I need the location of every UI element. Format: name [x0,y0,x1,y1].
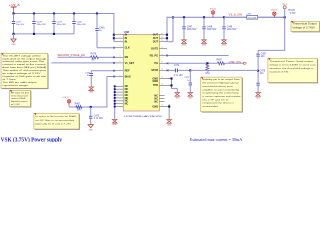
svg-text:1: 1 [120,33,121,35]
svg-text:transconductance) error: transconductance) error [202,85,233,88]
node TPD pin [170,84,172,86]
svg-text:of 7.5ms.: of 7.5ms. [2,79,17,81]
svg-text:the internal OTA (operational: the internal OTA (operational [202,82,239,85]
ground C472 [188,93,193,100]
svg-text:100n 50V: 100n 50V [207,29,217,31]
IC left pin stubs [114,33,123,77]
svg-text:C480: C480 [77,21,83,23]
svg-text:R497: R497 [217,60,223,62]
capacitor C482 10n (REF) [85,71,93,87]
ground input rail [11,34,16,46]
svg-text:13: 13 [161,105,163,107]
node TP junction [284,16,286,18]
power flag output bus [210,7,216,17]
ground C449 [222,40,227,47]
svg-text:100n 50V: 100n 50V [37,24,47,26]
svg-text:20: 20 [161,54,163,56]
wire bus1 to IN pins [113,13,115,42]
svg-text:2: 2 [120,37,121,39]
svg-text:NC: NC [154,99,158,103]
svg-text:IN: IN [125,33,128,37]
note: stability pin [201,77,243,113]
svg-text:PG: PG [154,61,158,65]
svg-text:it: series capacitor and resis: it: series capacitor and resistor [202,95,241,98]
svg-text:FB_PG: FB_PG [150,53,159,57]
svg-text:100n 50V: 100n 50V [77,24,87,26]
svg-text:recommended.: recommended. [202,106,219,108]
node bbus-gnd [12,33,14,35]
wire bottom-right gnd column [167,104,169,119]
resistor R487 10R (BIAS) [75,103,82,111]
svg-text:GND: GND [113,124,118,126]
svg-text:C472: C472 [184,77,190,79]
wire output S-bend [258,17,285,53]
svg-text:Theoretical Output: Theoretical Output [292,23,317,26]
svg-text:0R: 0R [92,60,95,62]
node bus2-sense [172,16,174,18]
svg-text:REF: REF [125,69,131,73]
node BIAS-C473 [90,106,92,108]
svg-text:Power: Power [271,9,277,12]
node bottom-right gnd [168,105,170,107]
node bus1-C478 [33,12,35,14]
svg-text:The BW pin adds output: The BW pin adds output [2,81,37,84]
svg-text:R478: R478 [91,54,97,56]
capacitor C479 100n 50V [52,14,66,34]
node PG-DNI [206,62,208,64]
node OUT1 [166,34,168,36]
svg-text:REF outputs 1.2V. A 12k: REF outputs 1.2V. A 12k [11,91,29,94]
svg-text:C478: C478 [37,21,43,23]
svg-text:IN: IN [125,40,128,44]
svg-text:C449: C449 [227,26,233,28]
wire BIAS RC rail [69,106,107,108]
svg-text:6: 6 [120,61,121,63]
node STAB-output [257,70,259,72]
node STAB-C472 [189,69,191,71]
wire EN segment a [58,56,91,58]
svg-text:Power: Power [210,7,216,10]
resistor R478 0R (EN) [91,54,99,62]
junction x CLK pin [113,47,115,49]
svg-text:C448: C448 [207,26,213,28]
svg-text:The V3_8ET voltage will be: The V3_8ET voltage will be [2,54,42,57]
svg-text:compensate the device is: compensate the device is [202,102,234,105]
svg-text:TP470: TP470 [288,10,295,12]
capacitor C481 1u (CLK soft-start) [95,14,105,48]
IC U48 right pin labels [150,33,159,109]
wire OUT sense vertical [167,17,173,42]
wire PG segment b [225,62,244,64]
svg-text:21: 21 [161,47,163,49]
capacitor C447 100n 50V [182,17,197,40]
svg-text:C447: C447 [187,26,193,28]
svg-text:DNI: DNI [206,73,210,75]
note: REF current source [10,90,32,107]
power flag BIAS [62,97,71,107]
svg-text:5: 5 [120,56,121,58]
svg-text:3.75V: 3.75V [290,13,296,15]
svg-text:draw from then REF pin (100uA): draw from then REF pin (100uA) [2,66,46,69]
svg-text:24: 24 [161,33,163,35]
svg-text:GND: GND [152,79,158,83]
power flag after bead [271,9,277,18]
svg-text:Stability pin is an output fro: Stability pin is an output from [202,78,240,81]
svg-text:GND: GND [175,97,180,99]
svg-text:set the internal current: set the internal current [11,94,29,97]
wire FB_PG [166,55,228,57]
svg-text:GND: GND [202,45,207,47]
svg-text:LP38798SD-ADJ/NOPB: LP38798SD-ADJ/NOPB [124,115,163,118]
svg-text:NC: NC [125,102,129,106]
capacitor C477 10u 10V [12,14,25,34]
wire GND/TPD chain [167,79,177,93]
wire input bottom bus [14,33,75,35]
resistor DNI pulldown [206,64,210,75]
test point TP470 [282,4,296,17]
offpage connector V3E_PG [244,62,247,64]
node bus2-C447 [183,16,185,18]
svg-text:Theoretical Power Good output: Theoretical Power Good output [269,60,313,63]
svg-text:C481: C481 [99,27,105,29]
ground NC bus [112,119,117,126]
node OUT2 [166,37,168,39]
svg-text:17: 17 [161,77,163,79]
capacitor C478 100n 50V [32,14,46,34]
title VSK power supply [1,137,63,144]
svg-text:capacitance margin.: capacitance margin. [2,84,29,87]
ferrite bead L470 [224,13,285,19]
wire V1_SET [51,62,115,64]
svg-text:23: 23 [161,37,163,39]
ground REF cap [89,87,94,94]
IC right NC pin stubs [159,96,164,102]
node bus1-C481 [96,12,98,14]
wire BIAS horizontal [107,76,115,78]
svg-text:18: 18 [161,69,163,71]
svg-text:19: 19 [161,62,163,64]
svg-text:8: 8 [120,75,121,77]
svg-text:100n 50V: 100n 50V [57,24,67,26]
node IN1 [113,34,115,36]
net label SECOND_STAGE_EN [57,54,85,57]
svg-text:4: 4 [120,46,121,48]
wire EN segment b [99,56,115,58]
capacitor C471 4.7u 10V (STAB series) [174,65,191,77]
net label V3_8_SW [229,14,243,17]
svg-text:Replicated current on: Replicated current on [11,100,28,103]
text estimated max current [190,138,243,142]
svg-text:an RC filter is recommended: an RC filter is recommended [35,119,74,122]
svg-text:amplifier to aid in monitoring: amplifier to aid in monitoring [202,88,239,91]
node bus1-C479 [53,12,55,14]
power symbol +V3_8 (input rail) [9,3,20,13]
note: BIAS RC filter [34,113,80,130]
wire NC bus left [114,85,116,119]
wire STAB segment a [167,70,175,72]
svg-text:OUT: OUT [153,40,159,44]
svg-text:GND: GND [188,97,193,99]
svg-text:C475: C475 [260,70,266,72]
svg-text:600R: 600R [248,17,257,19]
note: output voltage replication [1,53,49,89]
IC right pin stubs [159,33,167,107]
svg-text:In order to limit noise on BIA: In order to limit noise on BIAS, [35,115,77,118]
svg-text:(typically 10 R and 4.7 uF).: (typically 10 R and 4.7 uF). [35,122,72,125]
node bus1-start [12,12,14,14]
node bus1-C480 [73,12,75,14]
svg-text:10u 10V: 10u 10V [16,24,25,26]
wire STAB segment b [190,69,258,71]
node bus2-C448 [203,16,205,18]
svg-text:+V3_8: +V3_8 [62,97,69,99]
wire input top bus [13,13,114,15]
svg-text:Capacitor of 10nF gives a soft: Capacitor of 10nF gives a soft start [2,75,46,78]
svg-text:GND: GND [152,104,158,108]
node GND pin [170,77,172,79]
svg-text:GND: GND [167,124,172,126]
svg-text:or optimizing the control loop: or optimizing the control loop [202,92,240,95]
svg-text:SECOND_STAGE_EN: SECOND_STAGE_EN [57,54,85,57]
svg-text:C471: C471 [174,65,180,67]
capacitor C475 10n [256,70,266,92]
svg-text:VSK (3.75V) Power supply: VSK (3.75V) Power supply [1,137,63,142]
wire BIAS vertical [106,77,108,108]
capacitor C448 100n 50V [202,17,217,40]
svg-text:TPD: TPD [153,83,158,87]
svg-text:C497: C497 [261,53,267,55]
svg-text:C479: C479 [57,21,63,23]
svg-text:OUTS: OUTS [151,46,158,50]
ground bottom-right [167,120,172,127]
svg-text:L470: L470 [247,13,251,15]
node bus2-C449 [223,16,225,18]
ground GND/TPD chain [175,93,180,100]
capacitor C449 100n 50V [222,17,237,40]
capacitor C497 10n [256,53,267,71]
IC U48 body [123,30,159,111]
svg-text:4.7u 10V: 4.7u 10V [174,75,184,77]
svg-text:3: 3 [120,40,121,42]
note: power good threshold [268,58,318,83]
svg-text:V3_8_SW: V3_8_SW [229,14,243,17]
note: theoretical output voltage [291,21,320,32]
svg-text:situation, the threshold volta: situation, the threshold voltage is [269,67,313,70]
svg-text:C473: C473 [94,115,100,117]
svg-text:STAB: STAB [151,68,158,72]
svg-text:an output voltage of 3.74V.: an output voltage of 3.74V. [2,72,41,75]
svg-text:current is equal to the curren: current is equal to the current [2,63,46,66]
svg-text:replicated on the output throu: replicated on the output through [2,57,46,60]
svg-text:OUT: OUT [153,33,159,37]
node bbus-C479 [53,33,55,35]
capacitor C472 1u [184,70,192,92]
svg-text:C482: C482 [85,72,91,74]
svg-text:external unity gain error. The: external unity gain error. The [2,60,45,63]
svg-text:voltage is set to 3.308V. In w: voltage is set to 3.308V. In worst case [269,63,317,66]
svg-text:7: 7 [120,69,121,71]
svg-text:Then outline 47 shift resistor: Then outline 47 shift resistor gives [2,69,46,72]
wire CLK [97,30,114,48]
capacitor C473 4.7u 10V (BIAS) [89,107,103,125]
svg-text:4.7u 10V: 4.7u 10V [94,118,104,120]
ground C447 [182,40,187,47]
svg-text:IN: IN [125,36,128,40]
svg-text:OUT: OUT [153,36,159,40]
ground BIAS cap [88,125,93,132]
svg-text:BIAS: BIAS [125,74,131,78]
svg-text:CLK: CLK [125,46,130,50]
wire output top bus [167,16,285,18]
ground C448 [202,40,207,47]
svg-text:R487: R487 [75,103,81,105]
svg-text:GND: GND [11,44,16,46]
IC U48 part number [124,115,163,118]
svg-text:GND: GND [89,92,94,94]
ground C475 [256,93,261,100]
capacitor C480 100n 50V [72,14,86,34]
svg-text:GND: GND [89,129,94,131]
svg-text:source to 100uA.: source to 100uA. [11,97,26,100]
svg-text:GND: GND [222,45,227,47]
svg-text:maximum 3.73V.: maximum 3.73V. [269,71,289,73]
node bbus-C478 [33,33,35,35]
svg-text:EN: EN [125,55,129,59]
IC left NC pin stubs [115,86,124,106]
svg-text:22: 22 [161,40,163,42]
svg-text:Voltage of 3.745V: Voltage of 3.745V [292,27,315,30]
wire REF [91,70,115,72]
svg-text:C477: C477 [16,21,22,23]
svg-text:100n 50V: 100n 50V [187,29,197,31]
svg-text:V1_SET: V1_SET [125,61,135,65]
IC U48 left pin labels [125,33,135,106]
svg-text:GND: GND [256,97,261,99]
svg-text:Estimated max current = 30mA: Estimated max current = 30mA [190,138,243,142]
svg-text:of a 1 nF and 3 k to: of a 1 nF and 3 k to [202,98,229,101]
wire PG segment a [167,62,218,64]
svg-text:10R: 10R [77,109,82,111]
net label V3E_PG [229,61,242,64]
svg-text:pin V1_SET.: pin V1_SET. [11,104,21,106]
resistor R497 (PG) [217,60,225,65]
wire OUT bus vertical [166,17,168,42]
svg-text:16: 16 [161,84,163,86]
svg-text:GND: GND [182,45,187,47]
node IN2 [113,37,115,39]
svg-text:100n 50V: 100n 50V [227,29,237,31]
